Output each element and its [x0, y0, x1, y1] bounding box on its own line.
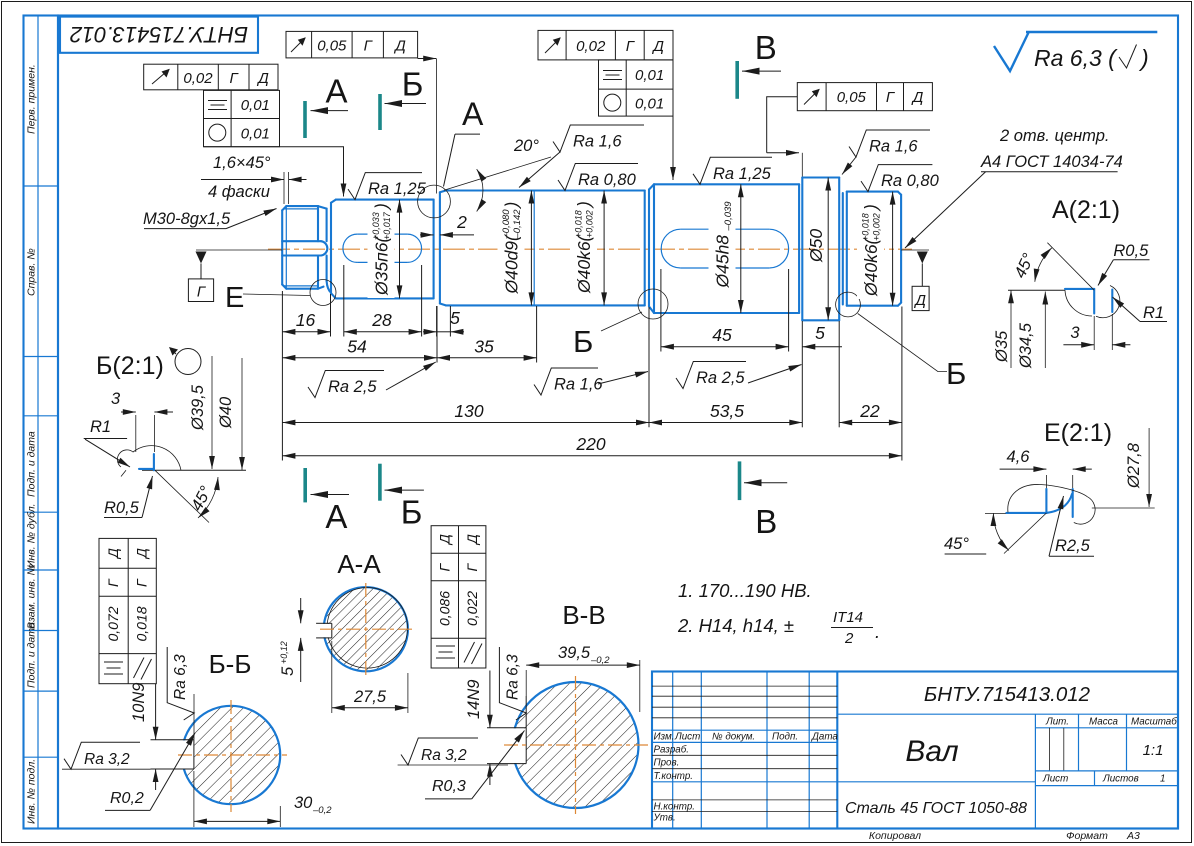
dim 53,5: [649, 422, 802, 424]
thread undercut groove E: [318, 206, 331, 292]
svg-text:Лист: Лист: [674, 732, 700, 743]
svg-text:Ra 6,3 (: Ra 6,3 (: [1034, 45, 1118, 71]
svg-text:Дата: Дата: [811, 732, 838, 743]
svg-text:+0,002: +0,002: [585, 210, 595, 238]
svg-text:1:1: 1:1: [1143, 742, 1164, 759]
svg-text:0,01: 0,01: [635, 67, 664, 84]
svg-text:Ra 3,2: Ra 3,2: [421, 747, 467, 764]
rotated mark symbol: [175, 349, 201, 375]
svg-text:+0,017: +0,017: [382, 211, 392, 240]
section B-B keyway dim 10N9: [155, 684, 157, 740]
Ra 1,25 on d35: [348, 173, 422, 200]
detail indicator circle E: [310, 280, 336, 306]
dim 28: [344, 331, 422, 333]
svg-text:2: 2: [844, 630, 854, 647]
left column box: [24, 16, 59, 829]
title block reserve rows: [652, 685, 837, 687]
svg-text:Ra 3,2: Ra 3,2: [84, 751, 130, 768]
title block: [652, 672, 1178, 829]
svg-text:Д: Д: [256, 70, 269, 87]
svg-text:1,6×45°: 1,6×45°: [213, 154, 271, 172]
svg-text:35: 35: [474, 337, 494, 357]
svg-text:0,01: 0,01: [241, 125, 270, 142]
svg-text:30: 30: [294, 794, 313, 812]
detail A dia 35: [1010, 290, 1012, 368]
svg-text:Ø35: Ø35: [993, 330, 1011, 363]
svg-text:Ra 6,3: Ra 6,3: [504, 654, 521, 700]
svg-text:–0,2: –0,2: [312, 805, 332, 816]
Ra 2,5 leader right bottom: [676, 362, 746, 389]
svg-text:БНТУ.715413.012: БНТУ.715413.012: [70, 22, 248, 47]
detail indicator circle A: [418, 185, 451, 218]
svg-text:45°: 45°: [944, 535, 969, 553]
left column labels: [26, 64, 38, 824]
Ra 0,80 on d40: [558, 164, 638, 191]
section B-B circle: [182, 706, 280, 804]
section B-B tolerance frames: [99, 538, 156, 683]
section cut mark V bottom: [738, 461, 742, 500]
extension lines for dims: [282, 265, 902, 461]
svg-text:R1: R1: [90, 418, 111, 436]
section V-V dim 39,5: [525, 670, 527, 728]
svg-text:А: А: [325, 73, 347, 110]
svg-text:Копировал: Копировал: [869, 830, 921, 842]
datum G: [196, 249, 282, 251]
Ra 0,80 on journal: [861, 165, 932, 192]
thread M30 body: [282, 206, 318, 289]
svg-text:Разраб.: Разраб.: [654, 745, 689, 756]
svg-text:27,5: 27,5: [353, 688, 387, 706]
svg-text:Ra 6,3: Ra 6,3: [172, 654, 189, 700]
d45 section outline: [654, 184, 799, 313]
detail E dia 27,8: [1125, 442, 1143, 489]
svg-text:Справ. №: Справ. №: [26, 248, 38, 296]
detail label E: [243, 294, 310, 296]
svg-text:R2,5: R2,5: [1055, 537, 1091, 555]
svg-text:Ra 1,6: Ra 1,6: [869, 138, 918, 156]
svg-text:Взам. инв. №: Взам. инв. №: [26, 564, 38, 629]
detail A dia 34,5: [1044, 292, 1046, 369]
header band: [652, 729, 837, 731]
general roughness Ra 6,3 top right: [994, 32, 1029, 72]
svg-text:А(2:1): А(2:1): [1052, 196, 1120, 224]
datum D: [901, 249, 929, 251]
svg-text:0,022: 0,022: [464, 591, 480, 626]
svg-text:R0,2: R0,2: [110, 790, 144, 807]
dia 35p6 dim: [399, 200, 401, 299]
Ra 1,6 leader right: [849, 130, 930, 157]
svg-text:Ø40: Ø40: [217, 396, 235, 429]
svg-text:Е(2:1): Е(2:1): [1044, 419, 1112, 447]
svg-text:А-А: А-А: [337, 549, 381, 579]
svg-text:Сталь 45 ГОСТ 1050-88: Сталь 45 ГОСТ 1050-88: [845, 800, 1027, 817]
svg-text:Д: Д: [393, 38, 406, 55]
svg-text:16: 16: [296, 310, 316, 330]
section cut mark V top: [735, 61, 739, 99]
d40d9/d40k6 boundary: [533, 191, 535, 306]
svg-text:Листов: Листов: [1102, 774, 1139, 785]
svg-text:А3: А3: [1126, 830, 1140, 842]
title block vertical blue lines: [672, 672, 674, 829]
svg-text:Ra 2,5: Ra 2,5: [328, 378, 377, 396]
svg-text:0,05: 0,05: [837, 89, 867, 106]
svg-text:+0,018: +0,018: [574, 210, 584, 238]
svg-text:Т.контр.: Т.контр.: [654, 771, 694, 782]
svg-text:2 отв. центр.: 2 отв. центр.: [999, 127, 1109, 145]
detail label B left: [601, 312, 642, 331]
svg-text:Ø34,5: Ø34,5: [1017, 322, 1035, 369]
svg-text:5: 5: [450, 308, 460, 328]
section B-B dim 30: [193, 771, 195, 827]
svg-text:А: А: [462, 96, 484, 132]
svg-text:45: 45: [712, 325, 732, 345]
detail A 45 deg: [1047, 243, 1094, 291]
svg-text:Д: Д: [913, 292, 926, 309]
detail B 45 deg: [155, 470, 209, 522]
svg-text:Ø45h8: Ø45h8: [713, 235, 733, 289]
svg-text:Ø35п6(: Ø35п6(: [372, 235, 392, 296]
svg-text:R0,5: R0,5: [1113, 242, 1149, 260]
detail A(2:1) profile: [1008, 286, 1120, 318]
section B-B Ra 6,3 rotated: [193, 694, 195, 740]
section V-V tolerance frames: [431, 526, 486, 668]
svg-text:+0,018: +0,018: [861, 213, 871, 241]
svg-text:+0,12: +0,12: [279, 641, 289, 664]
svg-text:28: 28: [371, 310, 392, 330]
section V-V Ra 3,2: [398, 764, 508, 766]
detail B dia 39,5: [189, 384, 207, 431]
svg-text:Подп.: Подп.: [772, 732, 798, 743]
shoulder face of d35: [331, 200, 336, 299]
svg-text:Ø50: Ø50: [806, 229, 826, 263]
dim 2 groove width: [420, 234, 434, 236]
section B-B centerlines: [230, 700, 232, 812]
svg-text:5: 5: [279, 666, 297, 676]
svg-text:Д: Д: [105, 548, 121, 560]
svg-text:БНТУ.715413.012: БНТУ.715413.012: [924, 683, 1091, 706]
title block texts: [653, 717, 1178, 824]
svg-text:–0,080: –0,080: [501, 209, 512, 240]
svg-text:Ø40k6(: Ø40k6(: [574, 233, 594, 294]
section cut mark A top: [303, 101, 307, 138]
dim 45 keyway: [661, 346, 789, 348]
svg-text:Ø40k6(: Ø40k6(: [861, 236, 881, 297]
svg-text:Подп. и дата: Подп. и дата: [26, 622, 38, 688]
section cut mark B top: [378, 94, 382, 130]
svg-text:0,086: 0,086: [437, 591, 453, 626]
svg-text:Инв. № подл.: Инв. № подл.: [26, 759, 38, 824]
svg-text:Изм.: Изм.: [654, 732, 675, 743]
d45 keyway slot: [661, 229, 788, 268]
svg-text:–0,142: –0,142: [512, 209, 523, 240]
svg-text:Д: Д: [437, 534, 453, 546]
svg-text:4,6: 4,6: [1007, 448, 1031, 466]
detail label B right: [858, 314, 947, 372]
dia 50 dim: [827, 178, 829, 321]
svg-text:Ra 1,25: Ra 1,25: [713, 165, 772, 183]
svg-text:0,072: 0,072: [105, 606, 121, 641]
svg-text:): ): [861, 204, 881, 212]
svg-text:54: 54: [347, 337, 367, 357]
section A-A dim 27,5: [331, 641, 333, 713]
dim 130: [282, 422, 649, 424]
shaft centerline: [268, 248, 912, 250]
svg-text:0,018: 0,018: [134, 606, 150, 641]
top-left rotated stamp box: [60, 17, 258, 53]
svg-text:Пров.: Пров.: [654, 758, 680, 769]
svg-text:0,05: 0,05: [317, 38, 347, 55]
tolerance frame symmetry/circularity 0,01 left: [204, 90, 344, 196]
svg-text:130: 130: [454, 401, 483, 421]
svg-text:Ra 0,80: Ra 0,80: [578, 171, 637, 189]
svg-text:0,01: 0,01: [635, 95, 664, 112]
svg-text:Д: Д: [651, 38, 664, 55]
svg-text:Е: Е: [225, 282, 244, 314]
svg-text:Ra 0,80: Ra 0,80: [881, 172, 940, 190]
svg-text:4 фаски: 4 фаски: [208, 183, 270, 201]
svg-text:Б(2:1): Б(2:1): [96, 352, 164, 380]
d40 section outline: [446, 191, 645, 306]
svg-text:IT14: IT14: [833, 609, 863, 626]
d35 section outline: [336, 200, 434, 299]
svg-text:R0,3: R0,3: [432, 778, 466, 795]
svg-text:Лист: Лист: [1042, 774, 1068, 785]
dim 22: [839, 422, 902, 424]
svg-text:0,02: 0,02: [576, 38, 606, 55]
svg-text:Б: Б: [402, 66, 424, 103]
svg-text:Ra 1,6: Ra 1,6: [554, 376, 603, 394]
svg-text:3: 3: [111, 390, 121, 408]
Ra 2,5 leader left bottom: [308, 371, 384, 398]
svg-text:Ra 2,5: Ra 2,5: [696, 369, 745, 387]
detail indicator circle B left: [638, 289, 668, 319]
tolerance frame 0,05 right: [767, 83, 933, 177]
svg-text:): ): [372, 203, 392, 211]
d35 keyway slot: [343, 234, 422, 262]
Ra 1,6 leader mid bottom: [534, 368, 598, 395]
svg-text:А4 ГОСТ 14034-74: А4 ГОСТ 14034-74: [980, 153, 1123, 171]
detail B(2:1) profile: [117, 446, 246, 477]
right sub block: [1034, 714, 1036, 828]
dia 40k6 journal dim: [892, 192, 894, 306]
svg-text:Б: Б: [401, 494, 423, 531]
groove B right: [843, 192, 847, 306]
section A-A keyway width dim 5: [300, 598, 302, 623]
svg-text:+0,033: +0,033: [371, 212, 381, 240]
svg-text:Ø39,5: Ø39,5: [189, 384, 207, 431]
svg-text:–0,2: –0,2: [590, 655, 610, 666]
dim 220: [282, 455, 902, 457]
svg-text:Д: Д: [134, 548, 150, 560]
svg-text:В: В: [755, 29, 777, 66]
dim 5 collar: [802, 346, 842, 348]
svg-text:Масштаб: Масштаб: [1131, 717, 1177, 728]
dia 40k6 dim: [603, 191, 605, 306]
section V-V Ra 6,3 rotated: [525, 696, 527, 728]
groove B left: [645, 184, 654, 313]
svg-text:А: А: [325, 498, 347, 535]
detail E 45 deg: [1004, 513, 1046, 554]
svg-text:Формат: Формат: [1066, 830, 1108, 842]
svg-text:39,5: 39,5: [558, 644, 591, 662]
svg-text:+0,002: +0,002: [872, 213, 882, 241]
d40k6 journal: [847, 192, 901, 306]
dim 5 groove: [423, 331, 437, 333]
svg-text:Утв.: Утв.: [653, 813, 676, 824]
svg-text:): ): [502, 202, 522, 210]
svg-text:Б: Б: [946, 356, 966, 391]
svg-text:0,02: 0,02: [183, 70, 213, 87]
section cut mark B bottom: [378, 464, 382, 501]
tolerance frame 1 runout 0,02: [144, 64, 278, 90]
detail A dim 3: [1093, 316, 1095, 350]
section cut mark A bottom: [303, 468, 307, 502]
svg-text:Вал: Вал: [905, 735, 958, 768]
section B-B Ra 3,2: [62, 768, 151, 770]
svg-text:R1: R1: [1143, 304, 1164, 322]
svg-text:10N9: 10N9: [130, 683, 148, 722]
svg-text:20°: 20°: [513, 137, 539, 155]
detail label A top: [455, 133, 480, 135]
keyway slot through thread: [282, 241, 327, 255]
svg-text:Масса: Масса: [1089, 717, 1119, 728]
section V-V centerlines: [575, 676, 577, 814]
Ra 1,25 on d45: [693, 157, 772, 184]
tolerance frame group middle 0,02: [538, 30, 673, 180]
svg-text:Н.контр.: Н.контр.: [654, 802, 695, 813]
svg-text:1: 1: [1160, 774, 1165, 785]
svg-text:В: В: [755, 503, 777, 540]
svg-text:Лит.: Лит.: [1045, 717, 1069, 728]
svg-text:Ø40d9(: Ø40d9(: [502, 233, 522, 295]
Ra 1,6 leader left: [553, 125, 644, 152]
svg-text:Перв. примен.: Перв. примен.: [26, 64, 38, 134]
svg-text:Д: Д: [464, 534, 480, 546]
section A-A centerlines: [365, 583, 367, 676]
svg-text:5: 5: [815, 323, 825, 343]
section V-V circle: [513, 682, 639, 808]
svg-text:53,5: 53,5: [710, 401, 744, 421]
svg-text:2. Н14, h14, ±: 2. Н14, h14, ±: [677, 615, 794, 636]
svg-text:Ø27,8: Ø27,8: [1125, 442, 1143, 489]
svg-text:Д: Д: [911, 89, 924, 106]
svg-text:Б-Б: Б-Б: [209, 649, 252, 679]
detail E profile: [985, 484, 1155, 524]
svg-text:3: 3: [1070, 324, 1080, 342]
svg-text:Инв. № дубл.: Инв. № дубл.: [26, 503, 38, 568]
svg-text:Б: Б: [573, 324, 593, 359]
svg-text:): ): [574, 201, 594, 209]
svg-text:1. 170...190 НВ.: 1. 170...190 НВ.: [678, 580, 812, 601]
svg-text:№ докум.: № докум.: [712, 732, 755, 743]
dia 40d9 dim: [530, 191, 532, 306]
dim 54: [282, 357, 437, 359]
section V-V keyway dim 14N9: [489, 671, 491, 728]
detail indicator circle B right: [836, 292, 861, 317]
svg-text:220: 220: [575, 434, 605, 454]
svg-text:Ra 1,6: Ra 1,6: [573, 133, 622, 151]
tolerance frame 0,05 top: [286, 31, 436, 58]
svg-text:2: 2: [456, 212, 467, 232]
svg-text:0,01: 0,01: [241, 97, 270, 114]
svg-text:Подп. и дата: Подп. и дата: [26, 431, 38, 497]
svg-text:Ra 1,25: Ra 1,25: [368, 180, 427, 198]
d50 collar: [802, 178, 839, 321]
svg-text:–0,039: –0,039: [723, 201, 734, 232]
detail B dia 40: [217, 396, 235, 429]
section A-A circle: [324, 587, 408, 671]
dim 16: [282, 331, 330, 333]
svg-text:R0,5: R0,5: [104, 499, 140, 517]
thread minor diameter thin lines: [284, 206, 319, 289]
svg-text:14N9: 14N9: [465, 680, 483, 719]
svg-text:В-В: В-В: [562, 600, 605, 630]
groove A at d35/d40: [440, 191, 446, 306]
svg-text:22: 22: [859, 401, 880, 421]
doc number cell line: [837, 713, 1178, 715]
dia 45h8 dim: [740, 184, 742, 313]
svg-text:М30-8gх1,5: М30-8gх1,5: [143, 210, 231, 228]
dim 35: [437, 357, 537, 359]
svg-text:.: .: [875, 621, 880, 642]
